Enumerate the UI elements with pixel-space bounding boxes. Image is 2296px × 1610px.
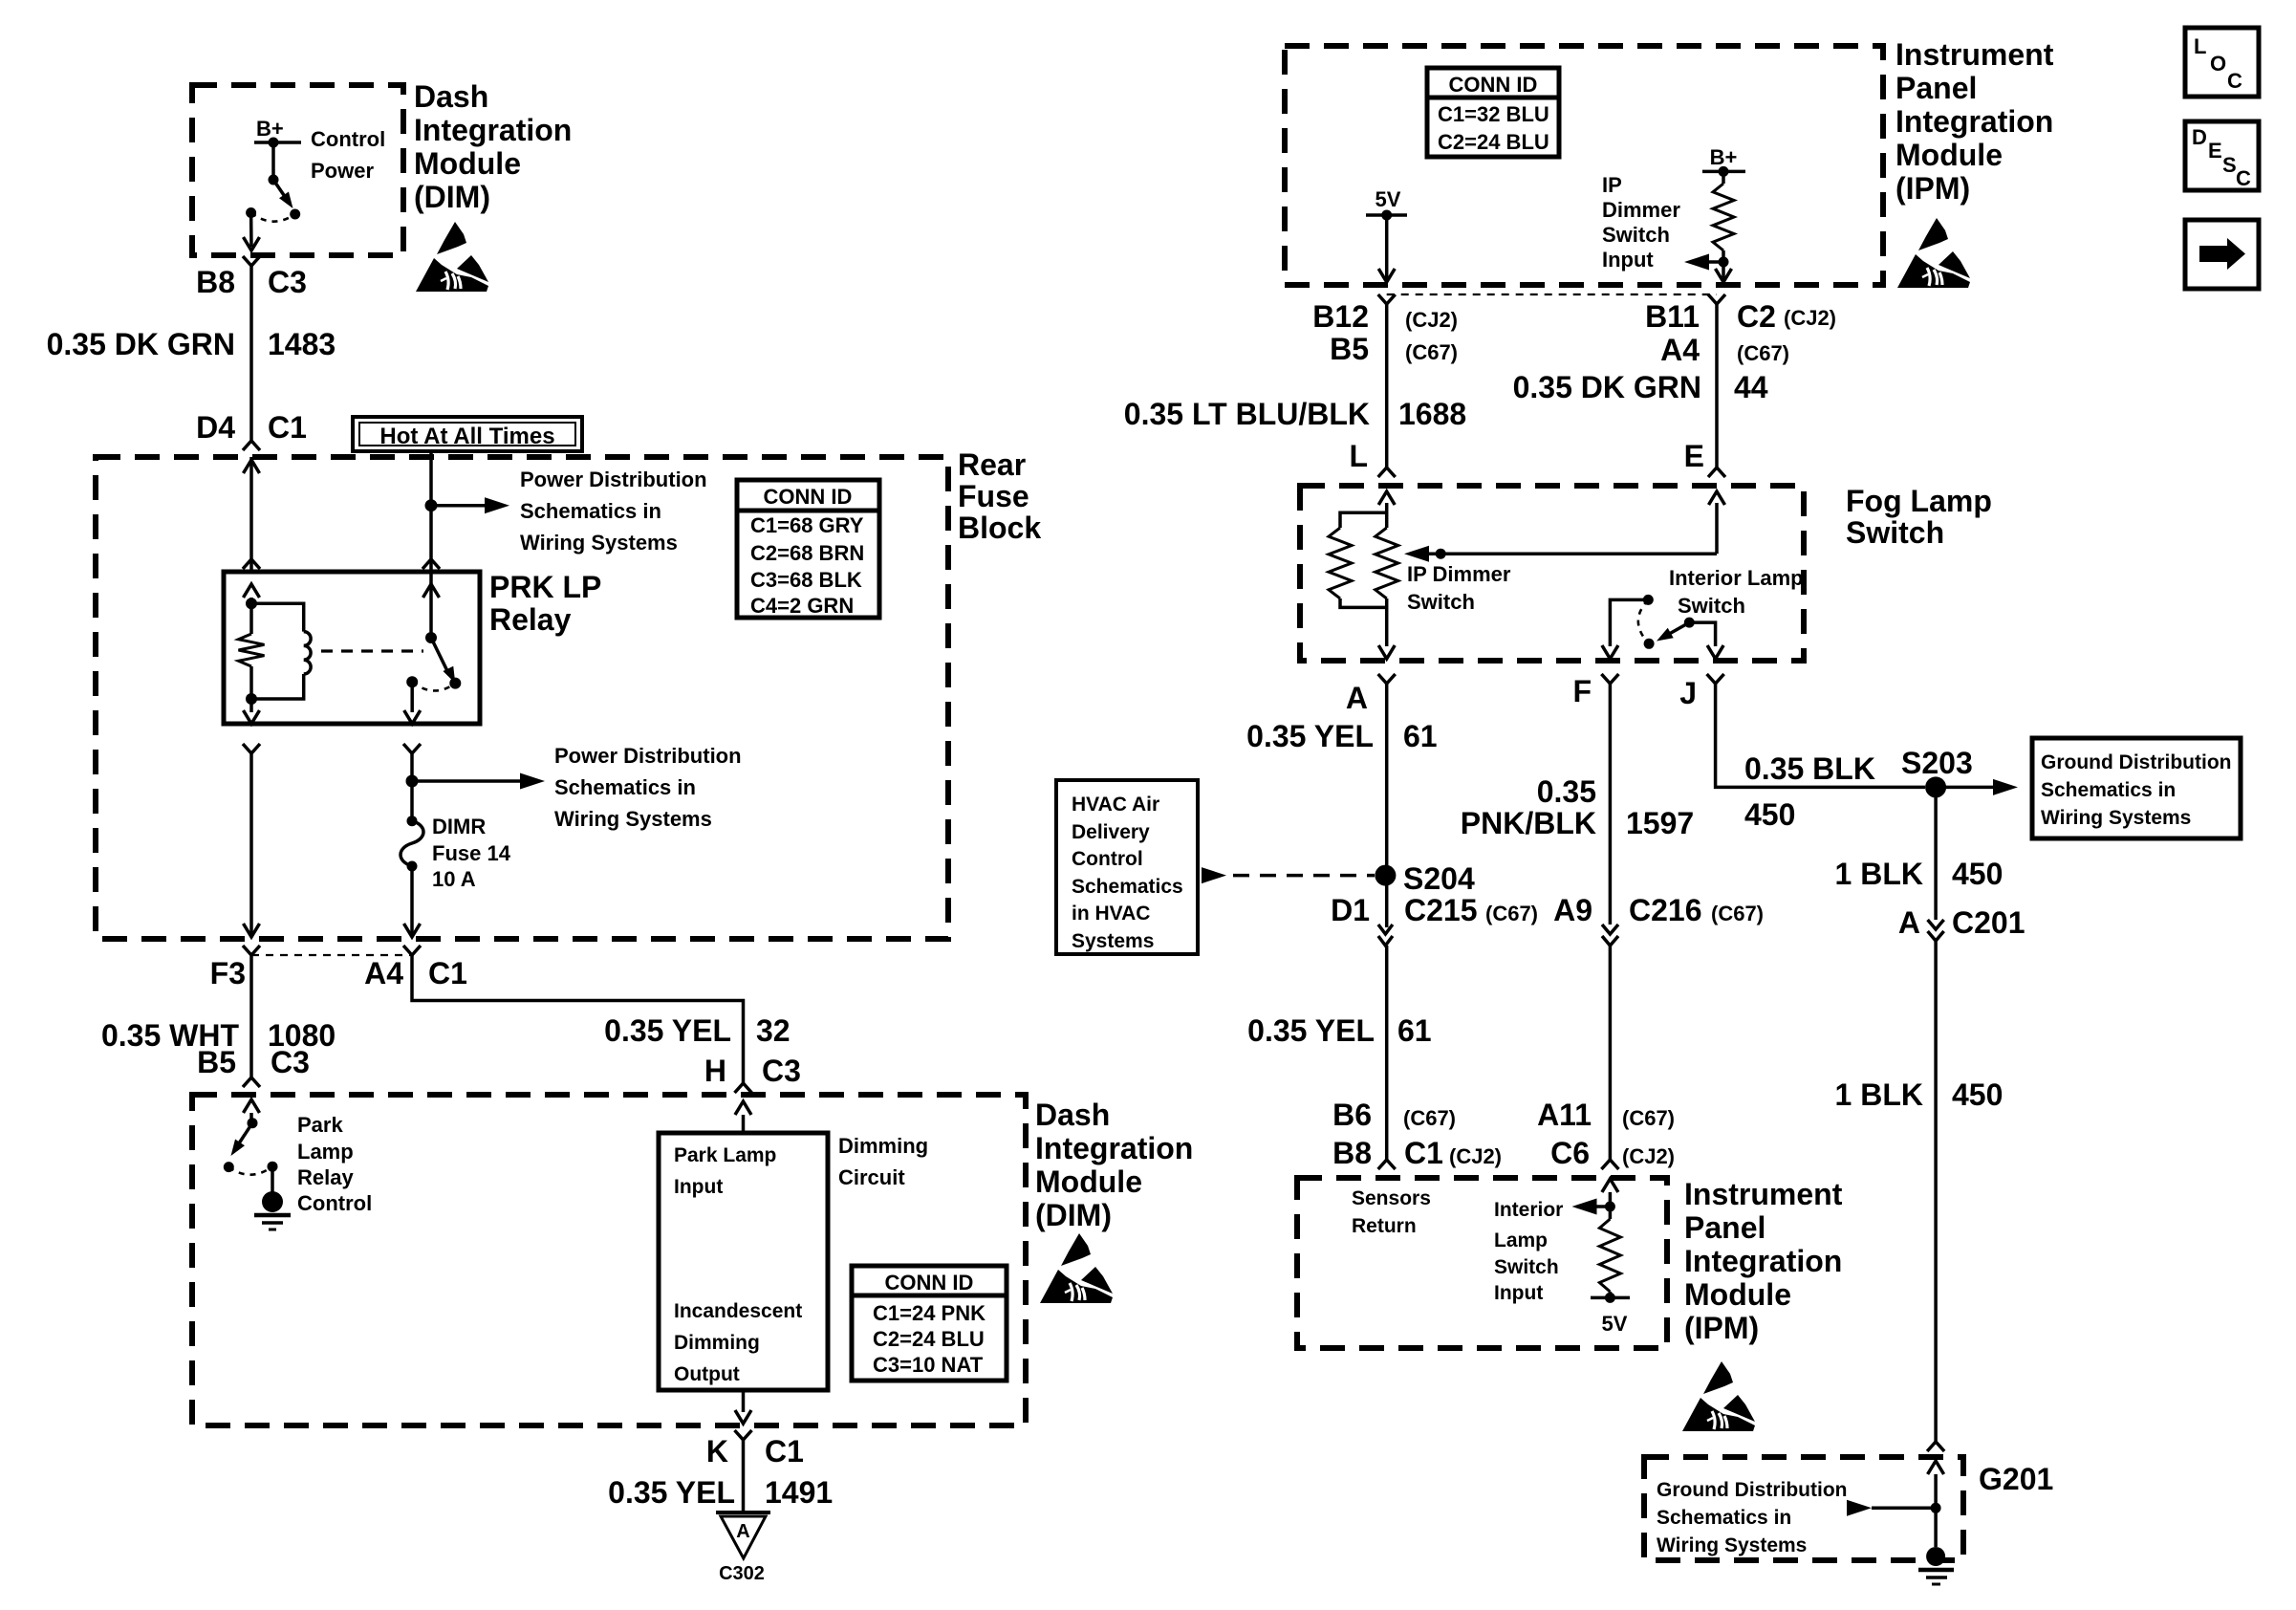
svg-text:C3=68 BLK: C3=68 BLK bbox=[750, 568, 862, 592]
relay coil bbox=[251, 603, 311, 699]
wire 1483 DK GRN bbox=[249, 266, 253, 441]
svg-text:C215: C215 bbox=[1404, 893, 1478, 927]
connector group CJ2/C67 (B12, B11) bbox=[1378, 294, 1725, 304]
svg-text:E: E bbox=[1684, 439, 1704, 473]
reference box Ground Distribution Schematics in Wiring Systems (right) bbox=[2032, 738, 2241, 838]
module box: Dash Integration Module (DIM) top bbox=[192, 85, 403, 255]
svg-text:Fog Lamp: Fog Lamp bbox=[1846, 484, 1992, 518]
svg-text:DIMR: DIMR bbox=[432, 815, 486, 838]
svg-text:IP Dimmer: IP Dimmer bbox=[1407, 562, 1511, 586]
svg-text:J: J bbox=[1679, 676, 1697, 710]
svg-text:Power: Power bbox=[311, 159, 374, 183]
label Rear Fuse Block bbox=[958, 447, 1041, 545]
svg-text:C2=68 BRN: C2=68 BRN bbox=[750, 541, 864, 565]
svg-text:CONN ID: CONN ID bbox=[1449, 73, 1538, 97]
svg-text:(C67): (C67) bbox=[1403, 1106, 1456, 1130]
switch: Control Power bbox=[244, 142, 301, 250]
connector C1 pins F3/A4 (bottom of fuse block) bbox=[210, 946, 467, 990]
label IP Dimmer Switch (pot) bbox=[1407, 562, 1511, 614]
svg-text:S203: S203 bbox=[1901, 746, 1973, 780]
svg-text:A4: A4 bbox=[364, 956, 403, 990]
svg-text:0.35 YEL: 0.35 YEL bbox=[1247, 1013, 1375, 1048]
svg-text:in HVAC: in HVAC bbox=[1072, 903, 1150, 925]
label Sensors Return bbox=[1352, 1187, 1431, 1237]
ESD symbol (DIM bottom) bbox=[1040, 1233, 1113, 1303]
splice S204 bbox=[1375, 861, 1475, 896]
arrow ground distribution reference bbox=[1847, 1500, 1936, 1516]
label 1 BLK 450 (lower) bbox=[1835, 1077, 2004, 1112]
svg-text:Panel: Panel bbox=[1684, 1210, 1765, 1245]
label 0.35 YEL 1491 bbox=[608, 1475, 833, 1510]
svg-text:Module: Module bbox=[414, 146, 521, 181]
svg-text:B+: B+ bbox=[1710, 145, 1738, 169]
svg-text:Schematics in: Schematics in bbox=[520, 499, 661, 523]
svg-text:Switch: Switch bbox=[1678, 594, 1745, 618]
labels B11 C2 (CJ2) / A4 (C67) bbox=[1645, 299, 1836, 367]
connector pins L / E bbox=[1349, 439, 1725, 477]
connector C1 pin K bbox=[706, 1430, 804, 1512]
wire 61 YEL lower bbox=[1385, 946, 1389, 1160]
label 0.35 LT BLU/BLK 1688 bbox=[1124, 397, 1466, 431]
svg-text:A: A bbox=[1346, 681, 1368, 715]
label 0.35 WHT 1080 bbox=[101, 1018, 336, 1053]
svg-text:C1: C1 bbox=[765, 1434, 804, 1469]
label 1 BLK 450 (upper) bbox=[1835, 857, 2004, 891]
label Dimming Circuit bbox=[838, 1134, 928, 1189]
label Dash Integration Module (DIM) bbox=[414, 79, 572, 214]
svg-text:Ground Distribution: Ground Distribution bbox=[1657, 1479, 1847, 1501]
svg-text:C2: C2 bbox=[1737, 299, 1776, 334]
svg-text:D: D bbox=[2192, 125, 2207, 149]
svg-text:Instrument: Instrument bbox=[1684, 1177, 1843, 1211]
ESD symbol (DIM top) bbox=[416, 222, 488, 292]
label 0.35 PNK/BLK 1597 bbox=[1461, 774, 1694, 840]
wire 1597 PNK/BLK bbox=[1609, 684, 1613, 925]
table CONN ID (DIM) bbox=[852, 1266, 1007, 1381]
svg-text:A4: A4 bbox=[1660, 333, 1700, 367]
svg-text:0.35 LT BLU/BLK: 0.35 LT BLU/BLK bbox=[1124, 397, 1370, 431]
off-page triangle A / C302 bbox=[716, 1512, 770, 1584]
svg-text:O: O bbox=[2210, 52, 2226, 76]
svg-text:CONN ID: CONN ID bbox=[764, 485, 853, 509]
svg-text:L: L bbox=[2194, 34, 2206, 58]
svg-text:CONN ID: CONN ID bbox=[885, 1271, 974, 1295]
nav box LOC bbox=[2185, 28, 2259, 97]
svg-text:Lamp: Lamp bbox=[1494, 1229, 1548, 1251]
svg-text:0.35 YEL: 0.35 YEL bbox=[1246, 719, 1374, 753]
svg-text:IP: IP bbox=[1602, 173, 1622, 197]
svg-text:(C67): (C67) bbox=[1485, 902, 1538, 925]
nav box arrow bbox=[2185, 220, 2259, 289]
svg-text:A: A bbox=[736, 1521, 749, 1542]
wire 1 BLK 450 lower bbox=[1934, 941, 1938, 1442]
arrow to ground distribution bbox=[1936, 779, 2018, 795]
svg-text:A11: A11 bbox=[1537, 1098, 1592, 1132]
connector C201 pin A bbox=[1898, 905, 2025, 941]
svg-text:450: 450 bbox=[1952, 857, 2003, 891]
svg-text:C201: C201 bbox=[1952, 905, 2025, 940]
svg-text:Circuit: Circuit bbox=[838, 1165, 905, 1189]
label 0.35 YEL 61 (lower) bbox=[1247, 1013, 1431, 1048]
arrow interior lamp switch input bbox=[1572, 1199, 1611, 1215]
svg-text:Instrument: Instrument bbox=[1895, 37, 2054, 72]
svg-text:0.35 DK GRN: 0.35 DK GRN bbox=[1513, 370, 1701, 404]
svg-text:Park: Park bbox=[297, 1113, 343, 1137]
svg-text:Dash: Dash bbox=[414, 79, 488, 114]
connector C3 pin B5 bbox=[197, 1045, 310, 1087]
svg-text:(DIM): (DIM) bbox=[1035, 1198, 1112, 1232]
label Ground Distribution Schematics in Wiring Systems (G201) bbox=[1657, 1479, 1847, 1556]
splice S203 bbox=[1901, 746, 1973, 797]
relay coil resistor branch bbox=[239, 584, 265, 724]
reference box HVAC Air Delivery Control Schematics in HVAC Systems bbox=[1056, 780, 1198, 954]
label 0.35 YEL 61 (upper) bbox=[1246, 719, 1437, 753]
svg-text:Relay: Relay bbox=[489, 602, 572, 637]
svg-text:Switch: Switch bbox=[1494, 1256, 1559, 1278]
note Power Distribution Schematics in Wiring Systems (top) bbox=[520, 468, 707, 555]
svg-text:0.35 BLK: 0.35 BLK bbox=[1744, 751, 1875, 786]
svg-text:Dimmer: Dimmer bbox=[1602, 198, 1680, 222]
svg-text:Panel: Panel bbox=[1895, 71, 1977, 105]
wire 1 BLK 450 upper bbox=[1934, 787, 1938, 920]
svg-text:Module: Module bbox=[1035, 1164, 1142, 1199]
wire PNK/BLK to C6 bbox=[1609, 946, 1613, 1160]
ESD symbol (IPM bottom) bbox=[1682, 1361, 1755, 1431]
label Interior Lamp Switch Input bbox=[1494, 1199, 1563, 1304]
svg-text:Integration: Integration bbox=[1684, 1244, 1842, 1278]
svg-text:Input: Input bbox=[674, 1176, 723, 1198]
svg-text:H: H bbox=[704, 1054, 726, 1088]
svg-text:5V: 5V bbox=[1602, 1312, 1628, 1336]
ESD symbol (IPM top) bbox=[1897, 218, 1970, 288]
connector pins A / F / J bbox=[1346, 674, 1724, 715]
svg-text:Block: Block bbox=[958, 511, 1041, 545]
svg-text:G201: G201 bbox=[1979, 1462, 2053, 1496]
svg-text:Control: Control bbox=[311, 127, 385, 151]
svg-text:Lamp: Lamp bbox=[297, 1140, 354, 1164]
svg-text:0.35 YEL: 0.35 YEL bbox=[608, 1475, 735, 1510]
module box: Dash Integration Module (DIM) bottom bbox=[192, 1095, 1026, 1425]
node/junction to power distribution (top) bbox=[425, 497, 510, 513]
svg-text:0.35 YEL: 0.35 YEL bbox=[604, 1013, 731, 1048]
svg-text:C3: C3 bbox=[271, 1045, 310, 1079]
labels A11 (C67) / C6 (CJ2) bbox=[1537, 1098, 1675, 1170]
svg-text:(DIM): (DIM) bbox=[414, 180, 490, 214]
svg-text:Switch: Switch bbox=[1602, 223, 1670, 247]
wire 450 BLK to S203 bbox=[1716, 684, 1925, 787]
svg-text:C302: C302 bbox=[719, 1563, 765, 1584]
svg-text:PNK/BLK: PNK/BLK bbox=[1461, 806, 1596, 840]
svg-text:Integration: Integration bbox=[1895, 104, 2053, 139]
table CONN ID (rear fuse block) bbox=[737, 480, 879, 618]
svg-text:Interior Lamp: Interior Lamp bbox=[1669, 566, 1804, 590]
svg-text:1491: 1491 bbox=[765, 1475, 833, 1510]
svg-text:D1: D1 bbox=[1331, 893, 1370, 927]
label PRK LP Relay bbox=[489, 570, 601, 637]
wire 5V down to B12 bbox=[1378, 215, 1395, 282]
svg-text:Power Distribution: Power Distribution bbox=[520, 468, 707, 491]
label 0.35 DK GRN 44 bbox=[1513, 370, 1768, 404]
svg-text:Integration: Integration bbox=[1035, 1131, 1193, 1165]
svg-text:B5: B5 bbox=[1330, 332, 1369, 366]
svg-text:F3: F3 bbox=[210, 956, 246, 990]
svg-text:61: 61 bbox=[1403, 719, 1438, 753]
svg-text:C2=24 BLU: C2=24 BLU bbox=[1438, 130, 1549, 154]
svg-text:Fuse: Fuse bbox=[958, 479, 1029, 513]
svg-text:C1: C1 bbox=[1404, 1136, 1443, 1170]
node/junction to power distribution (mid) bbox=[406, 773, 546, 790]
module box: Instrument Panel Integration Module (IPM) bottom bbox=[1297, 1178, 1667, 1348]
relay actuation dashed link bbox=[321, 649, 423, 652]
svg-text:C1=24 PNK: C1=24 PNK bbox=[873, 1301, 986, 1325]
wire 61 YEL upper bbox=[1385, 684, 1389, 927]
svg-text:C3=10 NAT: C3=10 NAT bbox=[873, 1353, 984, 1377]
label Fog Lamp Switch bbox=[1846, 484, 1992, 550]
module box: Fog Lamp Switch bbox=[1300, 486, 1804, 661]
connector into IPM (B8/C1) bbox=[1378, 1160, 1396, 1169]
svg-text:Module: Module bbox=[1895, 138, 2003, 172]
connector C1 pin D4 bbox=[196, 410, 307, 450]
svg-text:D4: D4 bbox=[196, 410, 235, 445]
svg-text:L: L bbox=[1349, 439, 1368, 473]
svg-text:S: S bbox=[2222, 153, 2237, 177]
svg-text:(IPM): (IPM) bbox=[1684, 1311, 1759, 1345]
svg-text:Schematics in: Schematics in bbox=[2041, 779, 2176, 801]
svg-text:Wiring Systems: Wiring Systems bbox=[2041, 807, 2191, 829]
svg-text:(C67): (C67) bbox=[1405, 340, 1458, 364]
svg-text:Hot At All Times: Hot At All Times bbox=[379, 424, 554, 449]
svg-text:Output: Output bbox=[674, 1363, 740, 1385]
svg-text:Schematics in: Schematics in bbox=[554, 775, 696, 799]
svg-text:1 BLK: 1 BLK bbox=[1835, 1077, 1923, 1112]
node B+ (IPM) bbox=[1702, 145, 1745, 177]
svg-text:C1=68 GRY: C1=68 GRY bbox=[750, 513, 864, 537]
svg-text:Dash: Dash bbox=[1035, 1098, 1110, 1132]
svg-text:S204: S204 bbox=[1403, 861, 1475, 896]
svg-text:HVAC Air: HVAC Air bbox=[1072, 794, 1159, 816]
wire relay out right through fuse bbox=[403, 744, 421, 821]
switch Interior Lamp Switch bbox=[1602, 595, 1723, 659]
svg-text:Wiring Systems: Wiring Systems bbox=[520, 531, 678, 555]
svg-text:C: C bbox=[2236, 166, 2251, 190]
svg-text:(CJ2): (CJ2) bbox=[1784, 306, 1836, 330]
svg-text:Delivery: Delivery bbox=[1072, 821, 1150, 843]
svg-text:1483: 1483 bbox=[268, 327, 336, 361]
svg-text:Dimming: Dimming bbox=[838, 1134, 928, 1158]
svg-text:Interior: Interior bbox=[1494, 1199, 1563, 1221]
wire relay out left to F3 bbox=[243, 744, 260, 937]
svg-text:C: C bbox=[2227, 69, 2242, 93]
node 5V source bbox=[1366, 187, 1407, 221]
table CONN ID (IPM) bbox=[1427, 68, 1559, 157]
svg-text:C1=32 BLU: C1=32 BLU bbox=[1438, 102, 1549, 126]
svg-text:B11: B11 bbox=[1645, 299, 1700, 334]
connector C3 pin H bbox=[704, 1054, 801, 1093]
label IP Dimmer Switch Input bbox=[1602, 173, 1680, 272]
svg-text:Power Distribution: Power Distribution bbox=[554, 744, 742, 768]
svg-text:C6: C6 bbox=[1550, 1136, 1590, 1170]
switch: Park Lamp Relay Control with ground bbox=[224, 1099, 291, 1229]
wire 1080 WHT bbox=[249, 955, 253, 1077]
svg-text:61: 61 bbox=[1397, 1013, 1432, 1048]
svg-text:Relay: Relay bbox=[297, 1165, 354, 1189]
svg-text:450: 450 bbox=[1952, 1077, 2003, 1112]
label 0.35 BLK 450 bbox=[1744, 751, 1875, 832]
svg-text:K: K bbox=[706, 1434, 728, 1469]
connector into G201 bbox=[1927, 1442, 1944, 1451]
nav box DESC bbox=[2185, 121, 2259, 190]
svg-text:(CJ2): (CJ2) bbox=[1449, 1144, 1502, 1168]
connector C3 pin B8 bbox=[196, 256, 307, 299]
module box: Rear Fuse Block bbox=[96, 457, 948, 939]
svg-text:44: 44 bbox=[1734, 370, 1768, 404]
svg-text:(C67): (C67) bbox=[1622, 1106, 1675, 1130]
svg-text:Switch: Switch bbox=[1846, 515, 1944, 550]
svg-text:0.35 DK GRN: 0.35 DK GRN bbox=[47, 327, 235, 361]
label Control Power bbox=[311, 127, 385, 183]
svg-text:Module: Module bbox=[1684, 1277, 1791, 1312]
block Dimming Circuit (Park Lamp Input / Incandescent Dimming Output) bbox=[659, 1133, 828, 1390]
wire dimming output to K bbox=[735, 1390, 751, 1424]
label 0.35 DK GRN 1483 bbox=[47, 327, 336, 361]
svg-text:PRK LP: PRK LP bbox=[489, 570, 601, 604]
svg-text:Schematics in: Schematics in bbox=[1657, 1507, 1791, 1529]
label Dash Integration Module (DIM) bottom bbox=[1035, 1098, 1193, 1232]
svg-text:(C67): (C67) bbox=[1711, 902, 1764, 925]
arrow IP dimmer switch input bbox=[1684, 254, 1723, 271]
svg-text:Incandescent: Incandescent bbox=[674, 1300, 802, 1322]
resistor interior lamp switch input bbox=[1591, 1179, 1630, 1303]
potentiometer IP Dimmer Switch bbox=[1329, 491, 1398, 659]
label Instrument Panel Integration Module (IPM) bbox=[1895, 37, 2054, 206]
node B+ (control power) bbox=[254, 117, 301, 148]
module box: G201 ground bbox=[1644, 1457, 1963, 1560]
svg-text:(CJ2): (CJ2) bbox=[1622, 1144, 1675, 1168]
svg-text:C216: C216 bbox=[1629, 893, 1702, 927]
svg-text:10 A: 10 A bbox=[432, 867, 476, 891]
label Park Lamp Relay Control bbox=[297, 1113, 372, 1215]
svg-text:B8: B8 bbox=[196, 265, 235, 299]
tag Hot At All Times bbox=[353, 417, 582, 451]
wire from Hot At All Times to relay switch bbox=[422, 451, 440, 572]
svg-text:1688: 1688 bbox=[1398, 397, 1466, 431]
svg-text:0.35: 0.35 bbox=[1537, 774, 1596, 809]
svg-text:Input: Input bbox=[1602, 248, 1654, 272]
label Instrument Panel Integration Module (IPM) bottom bbox=[1684, 1177, 1843, 1345]
svg-text:C1: C1 bbox=[428, 956, 467, 990]
wire H into dimming circuit bbox=[735, 1101, 751, 1133]
svg-text:Control: Control bbox=[1072, 848, 1143, 870]
svg-text:1597: 1597 bbox=[1626, 806, 1694, 840]
wire 32 YEL (A4 to H) bbox=[412, 955, 744, 1083]
svg-text:(C67): (C67) bbox=[1737, 341, 1789, 365]
svg-text:5V: 5V bbox=[1375, 187, 1401, 211]
connector into IPM (C6) bbox=[1601, 1160, 1618, 1169]
resistor IP dimmer pull-up bbox=[1713, 171, 1734, 282]
svg-text:Ground Distribution: Ground Distribution bbox=[2041, 751, 2231, 773]
relay switch contacts bbox=[404, 572, 462, 724]
svg-text:Integration: Integration bbox=[414, 113, 572, 147]
label DIMR Fuse 14 10 A bbox=[432, 815, 511, 891]
svg-text:F: F bbox=[1572, 674, 1592, 708]
svg-text:B8: B8 bbox=[1332, 1136, 1372, 1170]
svg-text:Schematics: Schematics bbox=[1072, 876, 1183, 898]
svg-text:Fuse 14: Fuse 14 bbox=[432, 841, 511, 865]
module box: Instrument Panel Integration Module (IPM) top bbox=[1285, 46, 1883, 285]
svg-text:1 BLK: 1 BLK bbox=[1835, 857, 1923, 891]
note Power Distribution Schematics in Wiring Systems (mid) bbox=[554, 744, 742, 831]
svg-text:Control: Control bbox=[297, 1191, 372, 1215]
svg-text:Switch: Switch bbox=[1407, 590, 1475, 614]
svg-text:C4=2 GRN: C4=2 GRN bbox=[750, 594, 854, 618]
svg-text:B+: B+ bbox=[256, 117, 284, 141]
dashed reference line to S204 bbox=[1202, 867, 1375, 883]
svg-text:Wiring Systems: Wiring Systems bbox=[1657, 1534, 1807, 1556]
svg-text:B5: B5 bbox=[197, 1045, 236, 1079]
relay PRK LP Relay box bbox=[224, 572, 480, 724]
svg-text:Dimming: Dimming bbox=[674, 1332, 760, 1354]
svg-text:Systems: Systems bbox=[1072, 930, 1154, 952]
wire from D4 into relay (left feed) bbox=[243, 457, 260, 572]
svg-text:E: E bbox=[2208, 139, 2222, 163]
svg-text:Sensors: Sensors bbox=[1352, 1187, 1431, 1209]
svg-text:450: 450 bbox=[1744, 797, 1795, 832]
svg-text:Park Lamp: Park Lamp bbox=[674, 1144, 776, 1166]
svg-text:C1: C1 bbox=[268, 410, 307, 445]
wire 1688 LT BLU/BLK bbox=[1385, 304, 1389, 468]
connector C215 pin D1 bbox=[1331, 893, 1538, 946]
label Interior Lamp Switch bbox=[1669, 566, 1804, 618]
connector C216 pin A9 bbox=[1553, 893, 1764, 946]
svg-text:A9: A9 bbox=[1553, 893, 1592, 927]
wire into ground bbox=[1928, 1461, 1944, 1547]
labels B12 (CJ2) / B5 (C67) bbox=[1312, 299, 1458, 366]
svg-text:B6: B6 bbox=[1332, 1098, 1372, 1132]
wire 44 DK GRN bbox=[1715, 304, 1719, 468]
fuse DIMR Fuse 14 10 A bbox=[401, 816, 423, 937]
ground symbol G201 bbox=[1918, 1547, 1954, 1584]
svg-text:(CJ2): (CJ2) bbox=[1405, 308, 1458, 332]
svg-text:Input: Input bbox=[1494, 1282, 1543, 1304]
svg-text:Rear: Rear bbox=[958, 447, 1026, 482]
svg-text:C3: C3 bbox=[268, 265, 307, 299]
svg-text:(IPM): (IPM) bbox=[1895, 171, 1970, 206]
wiper arrow from E bbox=[1404, 491, 1725, 562]
svg-text:C3: C3 bbox=[762, 1054, 801, 1088]
svg-text:Return: Return bbox=[1352, 1215, 1417, 1237]
svg-text:B12: B12 bbox=[1312, 299, 1369, 334]
svg-text:32: 32 bbox=[756, 1013, 791, 1048]
label 0.35 YEL 32 bbox=[604, 1013, 790, 1048]
svg-text:A: A bbox=[1898, 905, 1920, 940]
svg-text:C2=24 BLU: C2=24 BLU bbox=[873, 1327, 985, 1351]
svg-text:Wiring Systems: Wiring Systems bbox=[554, 807, 712, 831]
labels B6 (C67) / B8 C1 (CJ2) bbox=[1332, 1098, 1502, 1170]
